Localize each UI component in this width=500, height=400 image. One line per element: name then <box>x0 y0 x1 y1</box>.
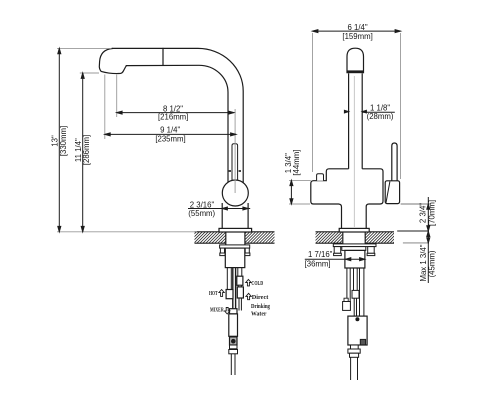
svg-text:(28mm): (28mm) <box>367 112 394 121</box>
svg-text:MIXER: MIXER <box>210 308 224 314</box>
svg-text:6 1/4": 6 1/4" <box>348 23 368 32</box>
svg-text:Direct: Direct <box>252 294 269 301</box>
svg-text:2 3/4": 2 3/4" <box>419 203 428 223</box>
svg-text:1 7/16": 1 7/16" <box>308 250 333 259</box>
svg-text:[36mm]: [36mm] <box>305 259 331 268</box>
svg-text:[286mm]: [286mm] <box>82 135 91 165</box>
svg-text:HOT: HOT <box>209 291 218 297</box>
svg-text:(55mm): (55mm) <box>188 209 215 218</box>
svg-text:9 1/4": 9 1/4" <box>160 125 180 134</box>
svg-text:Drinking: Drinking <box>251 303 271 310</box>
svg-text:[235mm]: [235mm] <box>155 134 185 143</box>
svg-text:[159mm]: [159mm] <box>342 32 372 41</box>
svg-text:[70mm]: [70mm] <box>427 200 436 226</box>
svg-text:COLD: COLD <box>251 281 263 287</box>
svg-text:Water: Water <box>251 310 267 317</box>
svg-text:[216mm]: [216mm] <box>158 113 188 122</box>
svg-text:(45mm): (45mm) <box>428 250 437 277</box>
svg-text:[44mm]: [44mm] <box>292 150 301 176</box>
svg-text:[330mm]: [330mm] <box>59 126 68 156</box>
